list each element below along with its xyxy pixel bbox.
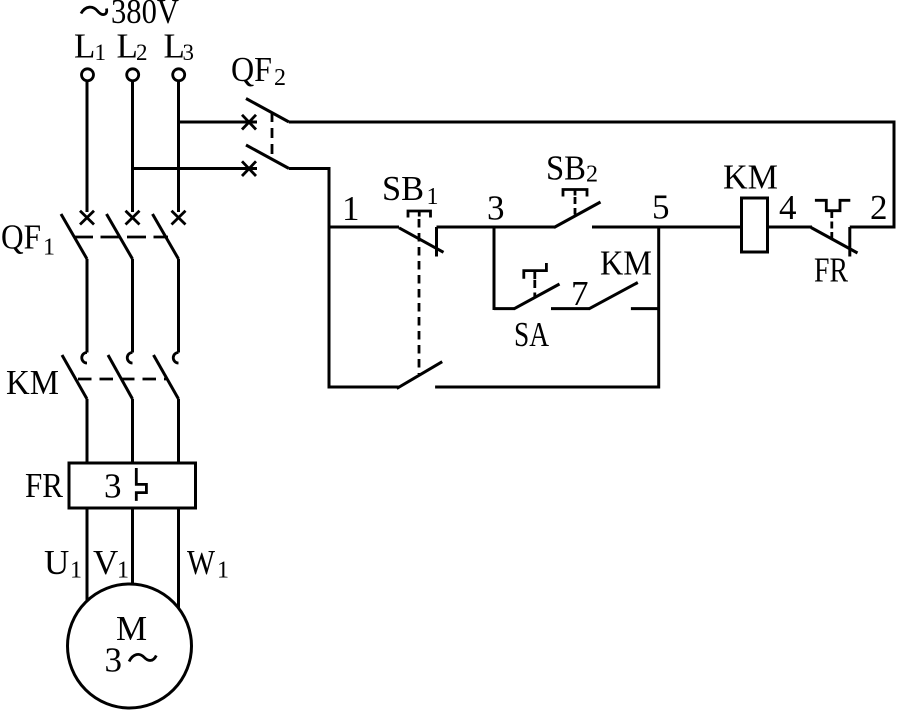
wire bottom rail right xyxy=(435,386,659,389)
pushbutton SB2 actuator dashed xyxy=(574,197,577,215)
svg-text:2: 2 xyxy=(274,65,286,91)
svg-text:FR: FR xyxy=(25,466,64,505)
breaker QF1 pole 3 X mark xyxy=(172,211,186,225)
terminal L3 xyxy=(173,69,185,81)
node 3 xyxy=(487,189,505,228)
label KM (main contacts) xyxy=(6,363,59,402)
thermal contact FR actuator dashed xyxy=(830,211,833,239)
breaker QF2 pole 2 blade xyxy=(246,145,289,169)
wire FR to motor phase 3 xyxy=(177,508,180,608)
motor M circle xyxy=(68,584,192,708)
wire L3 vertical xyxy=(177,81,180,212)
svg-text:KM: KM xyxy=(6,363,59,402)
label M xyxy=(116,609,147,648)
svg-text:2: 2 xyxy=(136,40,148,65)
wire KM aux to node 5 drop xyxy=(631,307,659,310)
coil KM xyxy=(742,198,768,252)
wire QF1 to KM phase 3 xyxy=(177,259,180,353)
breaker QF1 linkage dashed xyxy=(74,236,168,239)
svg-text:1: 1 xyxy=(43,235,55,261)
switch SA cap xyxy=(524,263,547,279)
pushbutton SB1 NC blade xyxy=(399,228,444,253)
wire node 3 drop xyxy=(493,227,496,310)
contact KM aux NO blade xyxy=(589,283,638,309)
svg-text:2: 2 xyxy=(870,188,888,227)
thermal contact FR NC blade xyxy=(811,228,858,254)
wire SA to KM aux xyxy=(551,307,590,310)
wire KM to FR phase 2 xyxy=(131,399,134,463)
svg-text:L: L xyxy=(74,27,95,66)
svg-text:W: W xyxy=(187,543,215,582)
wire QF1 to KM phase 1 xyxy=(86,259,89,353)
label FR (contact) xyxy=(814,251,849,290)
svg-text:1: 1 xyxy=(427,184,439,210)
node 5 xyxy=(652,188,670,227)
wire coil to FR contact xyxy=(768,226,813,229)
label KM (aux contact) xyxy=(600,244,652,283)
svg-text:3: 3 xyxy=(183,40,195,65)
contactor KM pole 3 blade xyxy=(154,355,179,399)
breaker QF1 pole 1 X mark xyxy=(80,211,94,225)
breaker QF2 pole 2 input wire xyxy=(133,167,258,170)
label ~380V xyxy=(81,0,179,31)
contactor KM pole 3 arc xyxy=(173,353,178,364)
svg-text:1: 1 xyxy=(117,558,129,584)
node 7 xyxy=(571,274,589,313)
label L2 xyxy=(117,27,148,66)
contactor KM pole 1 arc xyxy=(82,353,87,364)
svg-text:KM: KM xyxy=(723,158,778,197)
breaker QF1 pole 2 X mark xyxy=(126,211,140,225)
breaker QF2 pole 1 input wire xyxy=(179,121,258,124)
svg-text:KM: KM xyxy=(600,244,652,283)
breaker QF2 pole 1 X mark xyxy=(242,115,256,130)
wire left control drop xyxy=(328,167,331,389)
wire QF2 output to node 1 xyxy=(289,167,329,170)
pushbutton SB1 actuator dashed xyxy=(418,219,421,374)
wire rail SB2 to KM coil xyxy=(592,226,742,229)
svg-text:SB: SB xyxy=(546,149,586,188)
svg-text:7: 7 xyxy=(571,274,589,313)
svg-text:5: 5 xyxy=(652,188,670,227)
svg-text:1: 1 xyxy=(217,558,229,584)
breaker QF2 linkage dashed xyxy=(271,112,274,160)
breaker QF1 pole 2 blade xyxy=(107,214,133,259)
heater element symbol xyxy=(136,468,146,501)
label 3~ (motor) xyxy=(105,641,157,680)
wire node 5 drop xyxy=(657,227,660,389)
terminal L2 xyxy=(127,69,139,81)
svg-text:3: 3 xyxy=(487,189,505,228)
svg-text:QF: QF xyxy=(1,218,41,257)
svg-text:QF: QF xyxy=(231,50,272,89)
pushbutton SB2 cap xyxy=(563,190,587,197)
svg-text:SA: SA xyxy=(514,315,550,354)
pushbutton SB1 NO blade (bottom) xyxy=(397,362,443,389)
svg-text:1: 1 xyxy=(342,189,360,228)
thermal relay FR box xyxy=(69,463,196,508)
svg-text:L: L xyxy=(117,27,138,66)
wire FR to motor phase 1 xyxy=(86,508,89,603)
breaker QF2 pole 1 blade xyxy=(246,99,289,123)
svg-text:V: V xyxy=(93,543,118,582)
wire node3 to SA xyxy=(494,307,515,310)
pushbutton SB1 cap xyxy=(408,211,431,218)
label 3 (heater count) xyxy=(104,467,122,506)
svg-text:1: 1 xyxy=(70,558,82,584)
wire QF1 to KM phase 2 xyxy=(131,259,134,353)
label W1 xyxy=(187,543,229,584)
node 4 xyxy=(779,188,797,227)
label KM (coil) xyxy=(723,158,778,197)
wire right edge drop xyxy=(893,121,896,229)
breaker QF1 pole 1 blade xyxy=(61,214,87,259)
node 1 xyxy=(342,189,360,228)
svg-text:3: 3 xyxy=(105,641,123,680)
svg-text:4: 4 xyxy=(779,188,797,227)
switch SA NO blade xyxy=(514,284,560,309)
wire KM to FR phase 1 xyxy=(86,399,89,463)
label QF1 xyxy=(1,218,55,261)
label L3 xyxy=(164,27,195,66)
label U1 xyxy=(44,543,82,584)
wire rail node1 to SB1 xyxy=(329,226,399,229)
switch SA actuator dashed xyxy=(533,280,536,298)
thermal contact FR symbol xyxy=(815,200,850,210)
breaker QF2 pole 2 X mark xyxy=(242,161,256,176)
contactor KM pole 1 blade xyxy=(62,355,87,399)
label QF2 xyxy=(231,50,286,91)
svg-text:SB: SB xyxy=(382,169,424,208)
label V1 xyxy=(93,543,129,584)
label L1 xyxy=(74,27,106,66)
contactor KM linkage dashed xyxy=(78,378,166,381)
svg-text:2: 2 xyxy=(586,162,598,188)
thermal contact FR fixed contact drop xyxy=(848,227,851,257)
node 2 xyxy=(870,188,888,227)
label FR (thermal relay box) xyxy=(25,466,64,505)
contactor KM pole 2 arc xyxy=(127,353,132,364)
terminal L1 xyxy=(82,69,94,81)
svg-text:FR: FR xyxy=(814,251,849,290)
breaker QF1 pole 3 blade xyxy=(153,214,179,259)
pushbutton SB2 NO blade xyxy=(554,202,601,228)
wire KM to FR phase 3 xyxy=(177,399,180,463)
svg-text:1: 1 xyxy=(95,40,107,65)
wire top rail xyxy=(289,121,894,124)
svg-text:3: 3 xyxy=(104,467,122,506)
wire bottom rail left xyxy=(329,386,399,389)
label SA xyxy=(514,315,550,354)
wire L1 vertical xyxy=(86,81,89,212)
label SB2 xyxy=(546,149,598,188)
pushbutton SB1 NC fixed contact drop xyxy=(435,227,438,257)
wire FR to motor phase 2 xyxy=(131,508,134,586)
wire L2 vertical xyxy=(131,81,134,212)
label SB1 xyxy=(382,169,439,210)
svg-text:U: U xyxy=(44,543,69,582)
contactor KM pole 2 blade xyxy=(108,355,133,399)
wire FR contact to node 2 xyxy=(850,226,894,229)
wire rail SB1 to node 3 xyxy=(437,226,556,229)
